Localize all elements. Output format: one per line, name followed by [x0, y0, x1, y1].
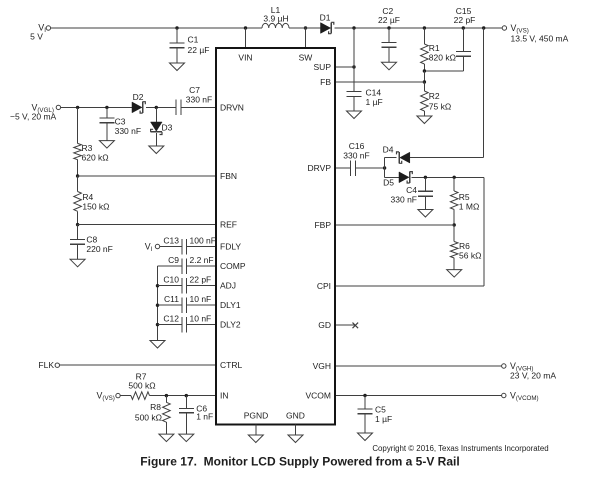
label R4 150k	[82, 192, 109, 212]
wire C15 bottom to R1 bottom	[424, 70, 463, 72]
svg-text:C9: C9	[168, 255, 179, 265]
pin label CTRL	[220, 360, 242, 370]
wire C11 to DLY1 pin	[187, 304, 217, 306]
label C2 22uF	[378, 6, 400, 25]
svg-text:DRVP: DRVP	[308, 163, 332, 173]
wire D5 cathode to right drop	[411, 176, 483, 178]
svg-text:150 kΩ: 150 kΩ	[82, 202, 109, 212]
wire DLY2 line	[158, 324, 183, 326]
svg-text:R3: R3	[82, 143, 93, 153]
svg-text:DRVN: DRVN	[220, 102, 244, 112]
ground below D3	[149, 146, 164, 154]
svg-text:DLY2: DLY2	[220, 320, 241, 330]
svg-text:10 nF: 10 nF	[190, 294, 212, 304]
svg-text:SUP: SUP	[314, 62, 332, 72]
pin label CPI	[317, 281, 331, 291]
wire CTRL line	[60, 364, 217, 366]
svg-text:220 nF: 220 nF	[86, 244, 112, 254]
pin label IN	[220, 391, 229, 401]
svg-text:820 kΩ: 820 kΩ	[429, 53, 456, 63]
svg-text:2.2 nF: 2.2 nF	[190, 255, 214, 265]
label C1 22uF	[188, 35, 210, 55]
svg-text:R1: R1	[429, 43, 440, 53]
label VVCOM	[510, 391, 539, 403]
wire VCOM pin to terminal	[335, 395, 502, 397]
wire right drop to CPI	[483, 177, 485, 286]
svg-text:620 kΩ: 620 kΩ	[82, 153, 109, 163]
svg-text:ADJ: ADJ	[220, 281, 236, 291]
wire CPI pin to right drop	[335, 285, 484, 287]
svg-text:D5: D5	[383, 178, 394, 188]
wire VS rail drop to D4	[483, 28, 485, 158]
resistor R2	[421, 82, 429, 116]
svg-text:FB: FB	[320, 77, 331, 87]
capacitor C8	[70, 225, 85, 260]
svg-text:22 pF: 22 pF	[190, 275, 212, 285]
node R1 junction	[423, 26, 426, 29]
diode D3	[151, 107, 163, 134]
svg-text:C8: C8	[86, 235, 97, 245]
svg-text:IN: IN	[220, 391, 229, 401]
wire ADJ line	[158, 285, 183, 287]
pin label FDLY	[220, 242, 241, 252]
svg-text:R8: R8	[150, 402, 161, 412]
svg-text:R4: R4	[82, 192, 93, 202]
node DLY1 bus junction	[156, 304, 159, 307]
diode D2	[132, 102, 145, 113]
svg-text:Figure 17. Monitor LCD Supply: Figure 17. Monitor LCD Supply Powered fr…	[140, 455, 459, 469]
resistor R7	[131, 392, 150, 400]
label D5	[383, 178, 394, 188]
wire GND stub	[295, 425, 297, 436]
pin label DLY1	[220, 300, 241, 310]
pin label DRVN	[220, 102, 244, 112]
label VVS at R7	[97, 391, 115, 403]
svg-text:C1: C1	[188, 35, 199, 45]
pin label VIN	[238, 53, 252, 63]
pin label VGH	[313, 361, 331, 371]
node D3 junction	[155, 106, 158, 109]
capacitor C13	[182, 239, 187, 255]
svg-text:FDLY: FDLY	[220, 242, 241, 252]
resistor R4	[74, 176, 82, 225]
wire C16 to doubler node	[356, 167, 385, 169]
svg-text:R2: R2	[429, 91, 440, 101]
svg-text:VIN: VIN	[238, 53, 252, 63]
ground below C8	[70, 259, 85, 267]
resistor R3	[74, 107, 82, 176]
svg-text:13.5 V, 450 mA: 13.5 V, 450 mA	[511, 34, 569, 44]
node R3 junction top	[76, 106, 79, 109]
resistor R8	[163, 396, 171, 435]
label C13 100nF	[163, 236, 216, 246]
label R5 1M	[459, 192, 480, 212]
label R1 820k	[429, 43, 456, 63]
label -5V 20mA	[10, 111, 57, 121]
node VGH terminal	[502, 364, 506, 368]
svg-text:VI: VI	[145, 242, 153, 254]
op-amp U1 TPS65150 main IC box	[216, 48, 335, 425]
pin label GD	[318, 320, 331, 330]
wire L1 to D1	[289, 27, 321, 29]
svg-text:22 µF: 22 µF	[378, 15, 400, 25]
wire doubler node vertical	[384, 158, 386, 178]
node R5/FBP junction	[453, 223, 456, 226]
svg-text:1 µF: 1 µF	[366, 97, 383, 107]
wire REF line	[78, 224, 216, 226]
svg-text:C3: C3	[115, 117, 126, 127]
ground below C3	[99, 141, 114, 149]
wire node to D4 cathode	[385, 157, 397, 159]
wire C10 to ADJ pin	[187, 285, 217, 287]
svg-text:56 kΩ: 56 kΩ	[459, 251, 481, 261]
capacitor C10	[182, 278, 187, 294]
wire C12 to DLY2 pin	[187, 324, 217, 326]
wire DRVP pin to C16	[335, 167, 351, 169]
ground below cap bus	[150, 341, 165, 349]
inductor L1	[262, 23, 289, 28]
svg-text:COMP: COMP	[220, 261, 246, 271]
ground below C2	[382, 62, 397, 70]
svg-text:REF: REF	[220, 220, 237, 230]
svg-text:D4: D4	[383, 145, 394, 155]
svg-text:FBP: FBP	[314, 220, 331, 230]
wire SW stub	[305, 28, 307, 48]
svg-text:22 pF: 22 pF	[454, 15, 476, 25]
svg-text:VCOM: VCOM	[306, 391, 332, 401]
pin label PGND	[244, 411, 269, 421]
pin label VCOM	[306, 391, 332, 401]
wire 5V rail: terminal to L1	[52, 27, 262, 29]
pin label DLY2	[220, 320, 241, 330]
svg-text:330 nF: 330 nF	[115, 126, 141, 136]
pin label DRVP	[308, 163, 332, 173]
svg-text:500 kΩ: 500 kΩ	[135, 413, 162, 423]
ground below PGND	[248, 435, 263, 443]
svg-text:C7: C7	[189, 85, 200, 95]
label C14 1uF	[366, 87, 383, 107]
label copyright	[372, 444, 548, 453]
node SUP/C14 junction	[352, 26, 355, 29]
node VI terminal	[46, 26, 52, 30]
wire FDLY terminal to C13	[160, 246, 182, 248]
node REF junction	[76, 223, 79, 226]
resistor R1	[421, 28, 429, 71]
node VCOM terminal	[502, 393, 506, 397]
ground below R2	[417, 116, 432, 124]
capacitor C4	[418, 177, 433, 209]
svg-text:PGND: PGND	[244, 411, 269, 421]
node C2 junction	[387, 26, 390, 29]
svg-text:GND: GND	[286, 411, 305, 421]
capacitor C5	[358, 396, 373, 434]
node FB junction	[423, 80, 426, 83]
svg-text:3.9 µH: 3.9 µH	[263, 13, 288, 23]
svg-text:DLY1: DLY1	[220, 300, 241, 310]
node ADJ bus junction	[156, 284, 159, 287]
diode D1	[321, 22, 334, 33]
label figure caption	[140, 455, 459, 469]
svg-text:330 nF: 330 nF	[186, 95, 212, 105]
ground below GND	[288, 435, 303, 443]
wire DLY1 line	[158, 304, 183, 306]
svg-text:V(VS): V(VS)	[97, 391, 115, 403]
node VIN junction	[244, 26, 247, 29]
capacitor C3	[99, 107, 114, 140]
svg-text:−5 V, 20 mA: −5 V, 20 mA	[10, 111, 57, 121]
svg-text:C14: C14	[366, 87, 382, 97]
label C4 330nF	[391, 185, 418, 205]
label R8 500k	[135, 402, 162, 423]
wire node to D5 anode	[385, 176, 399, 178]
wire cap bus vertical	[157, 266, 159, 341]
node FBN junction	[76, 174, 79, 177]
node C15 junction	[462, 26, 465, 29]
wire FBN line	[78, 175, 216, 177]
node VVS terminal at R7	[116, 393, 120, 397]
svg-text:1 nF: 1 nF	[196, 412, 213, 422]
capacitor C1	[170, 28, 185, 63]
label R2 75k	[429, 91, 451, 112]
capacitor C14	[347, 92, 362, 112]
diode D5	[399, 172, 412, 183]
label VI 5V	[30, 23, 46, 42]
ground below C5	[358, 433, 373, 441]
svg-text:5 V: 5 V	[30, 32, 43, 42]
pin label FB	[320, 77, 331, 87]
wire COMP line	[158, 265, 183, 267]
ground below R8	[159, 434, 174, 442]
node C6 junction	[185, 394, 188, 397]
node FLK terminal	[55, 363, 59, 367]
svg-text:GD: GD	[318, 320, 331, 330]
node VS terminal	[502, 26, 506, 30]
svg-text:C16: C16	[349, 141, 365, 151]
capacitor C15	[456, 28, 471, 71]
resistor R6	[450, 225, 458, 270]
diode D4	[397, 152, 410, 163]
svg-text:C5: C5	[375, 405, 386, 415]
svg-text:1 MΩ: 1 MΩ	[459, 202, 480, 212]
svg-text:VGH: VGH	[313, 361, 331, 371]
node VI terminal FDLY	[155, 244, 159, 248]
node VGL terminal	[56, 105, 60, 109]
svg-text:C11: C11	[164, 294, 179, 304]
svg-text:330 nF: 330 nF	[343, 151, 369, 161]
no-connect X at GD	[353, 323, 359, 329]
svg-text:75 kΩ: 75 kΩ	[429, 102, 451, 112]
svg-text:D2: D2	[133, 92, 144, 102]
svg-text:C10: C10	[163, 275, 179, 285]
svg-text:C12: C12	[163, 314, 179, 324]
svg-text:C4: C4	[406, 185, 417, 195]
svg-text:23 V, 20 mA: 23 V, 20 mA	[510, 371, 556, 381]
label D2	[133, 92, 144, 102]
ground below C14	[347, 111, 362, 119]
pin label SW	[299, 53, 313, 63]
ground below C1	[170, 63, 185, 71]
svg-text:FLK: FLK	[38, 360, 54, 370]
node SUP junction2	[352, 65, 355, 68]
capacitor C11	[182, 297, 187, 313]
label VVGL	[32, 103, 54, 115]
svg-text:10 nF: 10 nF	[190, 314, 212, 324]
label D4	[383, 145, 394, 155]
svg-text:CTRL: CTRL	[220, 360, 242, 370]
pin label FBP	[314, 220, 331, 230]
capacitor C6	[179, 396, 194, 435]
wire D4 anode to VS rail drop	[410, 157, 484, 159]
svg-text:CPI: CPI	[317, 281, 331, 291]
wire VIN stub	[245, 28, 247, 48]
label R3 620k	[82, 143, 109, 163]
node C3 junction	[105, 106, 108, 109]
wire rail to C14	[353, 28, 355, 92]
svg-text:500 kΩ: 500 kΩ	[128, 380, 155, 390]
label C3 330nF	[115, 117, 141, 137]
node SW junction	[304, 26, 307, 29]
label VI at FDLY	[145, 242, 153, 254]
label D3	[162, 123, 173, 133]
ground below C6	[179, 434, 194, 442]
label C7 330nF	[186, 85, 212, 105]
wire VVS terminal to R7	[120, 395, 131, 397]
wire C13 to FDLY pin	[187, 246, 217, 248]
node doubler junction	[383, 166, 386, 169]
capacitor C12	[182, 317, 187, 333]
wire R7 to IN pin	[150, 395, 217, 397]
node R1/C15 junction	[423, 69, 426, 72]
wire GD stub	[335, 324, 355, 326]
node R5 junction	[453, 176, 456, 179]
label C9 2.2nF	[168, 255, 213, 265]
node R8 junction	[165, 394, 168, 397]
ground below R6	[447, 270, 462, 278]
label VVGH 23V 20mA	[510, 361, 556, 381]
wire D1 to VS terminal	[335, 27, 503, 29]
node C5 junction	[363, 394, 366, 397]
node D4 junction	[482, 26, 485, 29]
node DLY2 bus junction	[156, 323, 159, 326]
ground below C4	[418, 210, 433, 218]
label C15 22pF	[454, 6, 476, 25]
wire R1 bottom to FB node	[423, 71, 425, 82]
svg-text:330 nF: 330 nF	[391, 195, 417, 205]
wire PGND stub	[255, 425, 257, 436]
wire SUP pin to rail drop	[335, 66, 354, 68]
svg-text:R5: R5	[459, 192, 470, 202]
capacitor C2	[382, 28, 397, 62]
label VVS 13.5V 450mA	[511, 23, 569, 44]
wire FBP pin to R5	[335, 224, 454, 226]
svg-text:D3: D3	[162, 123, 173, 133]
wire DRVN line VGL to D2	[61, 106, 132, 108]
label C16 330nF	[343, 141, 369, 161]
pin label SUP	[314, 62, 332, 72]
pin label REF	[220, 220, 237, 230]
label R6 56k	[459, 241, 481, 261]
svg-text:SW: SW	[299, 53, 313, 63]
label C5 1uF	[375, 405, 392, 425]
svg-text:R6: R6	[459, 241, 470, 251]
capacitor C9	[182, 258, 187, 274]
svg-text:C13: C13	[163, 236, 179, 246]
node C1 junction	[175, 26, 178, 29]
label C8 220nF	[86, 235, 112, 255]
capacitor C16	[351, 160, 356, 176]
pin label COMP	[220, 261, 246, 271]
label C10 22pF	[163, 275, 211, 285]
svg-text:100 nF: 100 nF	[190, 236, 216, 246]
wire C7 to DRVN pin	[181, 106, 216, 108]
capacitor C7	[176, 100, 181, 116]
svg-text:V(VCOM): V(VCOM)	[510, 391, 539, 403]
wire D3 to ground	[155, 133, 157, 146]
wire FB pin to R1/R2 node	[335, 81, 424, 83]
svg-text:FBN: FBN	[220, 171, 237, 181]
wire C9 to COMP pin	[187, 265, 217, 267]
wire VGH pin to terminal	[335, 365, 502, 367]
svg-text:D1: D1	[320, 13, 331, 23]
label C6 1nF	[196, 403, 213, 421]
svg-text:1 µF: 1 µF	[375, 414, 392, 424]
label C11 10nF	[164, 294, 211, 304]
pin label ADJ	[220, 281, 236, 291]
svg-text:Copyright © 2016, Texas Instru: Copyright © 2016, Texas Instruments Inco…	[372, 444, 548, 453]
wire D2 to C7	[146, 106, 176, 108]
svg-text:22 µF: 22 µF	[188, 45, 210, 55]
label C12 10nF	[163, 314, 211, 324]
resistor R5	[450, 177, 458, 225]
label L1 3.9uH	[263, 5, 288, 23]
pin label FBN	[220, 171, 237, 181]
label R7 500k	[128, 371, 155, 390]
label D1	[320, 13, 331, 23]
node C4 junction	[424, 176, 427, 179]
label FLK	[38, 360, 54, 370]
pin label GND	[286, 411, 305, 421]
